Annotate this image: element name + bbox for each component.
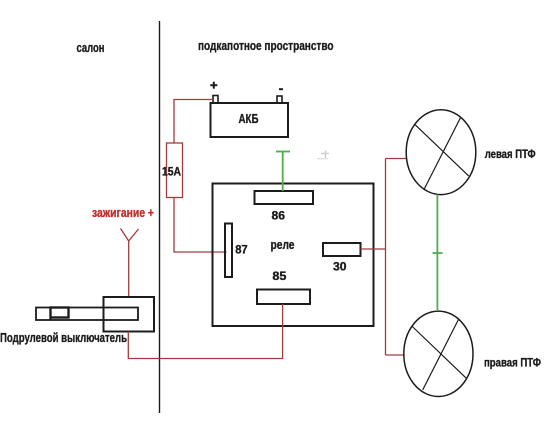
svg-text:30: 30	[333, 260, 347, 274]
svg-text:подкапотное пространство: подкапотное пространство	[198, 38, 334, 53]
relay box	[213, 184, 374, 327]
right fog lamp правая ПТФ	[404, 311, 473, 396]
relay pin 87	[225, 224, 248, 278]
svg-text:87: 87	[235, 243, 248, 257]
label - (battery minus)	[279, 88, 283, 90]
relay pin 86	[255, 191, 314, 223]
relay pin 30	[323, 243, 361, 274]
svg-text:салон: салон	[77, 40, 105, 55]
wire fuse to relay pin 87 (red)	[174, 198, 227, 253]
svg-text:86: 86	[272, 209, 286, 223]
svg-text:85: 85	[272, 269, 286, 283]
divider line between cabin and engine bay	[159, 21, 161, 413]
faint artifact mark	[317, 151, 329, 159]
wire to left lamp (red)	[386, 158, 407, 160]
wire switch to relay pin 85 (red)	[128, 304, 282, 359]
svg-text:АКБ: АКБ	[239, 111, 259, 126]
steering column switch box	[104, 297, 155, 332]
svg-text:левая ПТФ: левая ПТФ	[485, 147, 536, 161]
svg-text:Подрулевой выключатель: Подрулевой выключатель	[0, 330, 127, 345]
fuse 15A	[162, 143, 183, 198]
battery - terminal	[277, 96, 282, 103]
svg-text:правая ПТФ: правая ПТФ	[484, 355, 541, 369]
switch stalk	[36, 308, 138, 321]
wire ignition to switch (red)	[128, 241, 130, 297]
wire to right lamp (red)	[386, 354, 405, 356]
wire relay pin 30 to lamp feed (red)	[361, 248, 386, 250]
ground T to relay pin 86 (green)	[276, 152, 290, 192]
battery + terminal	[213, 96, 218, 104]
lamp feed vertical wire (red)	[385, 159, 387, 356]
svg-text:зажигание +: зажигание +	[92, 205, 154, 220]
relay pin 85	[257, 269, 310, 304]
left fog lamp левая ПТФ	[406, 110, 476, 195]
label + (battery plus)	[210, 82, 217, 89]
svg-text:реле: реле	[271, 237, 295, 252]
ground wire between lamps (green)	[433, 195, 443, 312]
svg-text:15А: 15А	[162, 165, 181, 179]
wire battery plus to fuse (red)	[174, 100, 213, 144]
battery АКБ	[211, 103, 289, 137]
ignition feed fork arrow (red)	[121, 229, 139, 242]
